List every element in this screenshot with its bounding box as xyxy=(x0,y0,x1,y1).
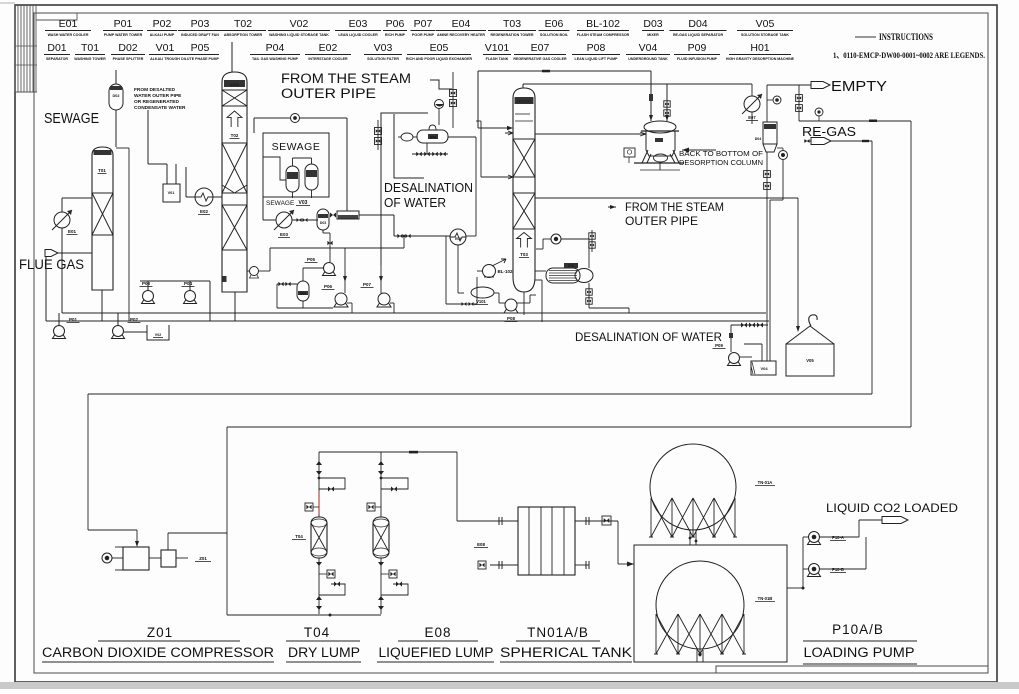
wire rich line valves xyxy=(445,236,447,304)
wire H01 outlet bottom xyxy=(659,162,661,170)
svg-text:SEWAGE: SEWAGE xyxy=(272,141,321,153)
wire sphere A outlet xyxy=(689,530,691,545)
valve manifold D04 drop xyxy=(766,166,768,196)
svg-text:CONDENSATE WATER: CONDENSATE WATER xyxy=(134,105,186,111)
svg-text:RE-GAS: RE-GAS xyxy=(802,125,856,139)
page edge tick top left xyxy=(0,2,15,4)
svg-text:P04: P04 xyxy=(184,281,193,286)
cooler E07 xyxy=(744,96,760,112)
svg-text:E01: E01 xyxy=(68,229,77,234)
wire D04 bottom xyxy=(766,152,768,166)
wire T02 bottom xyxy=(234,292,236,321)
svg-text:D03: D03 xyxy=(643,18,662,30)
valve manifold E06 up xyxy=(591,230,593,252)
svg-text:D04: D04 xyxy=(755,137,762,141)
wire T04 feed risers xyxy=(318,452,320,517)
wire P07 discharge xyxy=(390,302,394,304)
solenoid valve T04 left xyxy=(305,503,313,511)
wire T04 to E08 xyxy=(456,452,458,521)
svg-text:D01: D01 xyxy=(47,42,66,54)
svg-text:T04: T04 xyxy=(304,625,330,640)
separator D01 xyxy=(297,281,309,301)
svg-text:V101: V101 xyxy=(476,299,486,304)
svg-text:INTERSTAGE COOLER: INTERSTAGE COOLER xyxy=(308,57,348,61)
svg-text:FROM THE STEAM: FROM THE STEAM xyxy=(625,202,724,214)
gauge regas xyxy=(815,108,823,116)
svg-text:LEAN LIQUID LIFT PUMP: LEAN LIQUID LIFT PUMP xyxy=(575,57,619,61)
svg-text:T03: T03 xyxy=(520,252,528,257)
svg-text:V02: V02 xyxy=(155,333,161,337)
wire D03 down xyxy=(322,230,324,233)
svg-text:WATER OUTER PIPE: WATER OUTER PIPE xyxy=(134,93,182,99)
svg-text:REGENERATION TOWER: REGENERATION TOWER xyxy=(491,33,534,37)
mixer D03 xyxy=(317,209,329,230)
svg-text:OUTER PIPE: OUTER PIPE xyxy=(281,86,376,101)
svg-text:T02: T02 xyxy=(231,133,239,138)
svg-text:P04: P04 xyxy=(266,42,285,54)
column T03 packing upper xyxy=(513,139,535,177)
svg-text:TN-01B: TN-01B xyxy=(758,596,773,601)
text back to bottom xyxy=(682,149,716,151)
wire P09 discharge xyxy=(740,356,752,358)
valve T04 right top xyxy=(378,461,384,465)
svg-text:ALKALI TROUGH: ALKALI TROUGH xyxy=(150,57,180,61)
wire recycle header junction xyxy=(403,236,405,248)
svg-text:BL-102: BL-102 xyxy=(497,269,513,274)
heater E04 xyxy=(417,130,448,143)
page edge shadow bottom xyxy=(0,682,1019,689)
svg-text:FROM THE STEAM: FROM THE STEAM xyxy=(281,71,411,86)
wire E08 right upper xyxy=(575,520,618,522)
svg-text:SOLUTION BOIL: SOLUTION BOIL xyxy=(540,33,569,37)
fold marks block xyxy=(14,5,16,92)
wire pump suctions xyxy=(787,587,803,589)
column T02 packing lower xyxy=(222,205,247,250)
wire sewage top line xyxy=(254,117,290,119)
enclosure sphere B xyxy=(634,545,787,662)
wire blower connections xyxy=(536,248,543,250)
svg-text:E02: E02 xyxy=(200,209,209,214)
wire co2 product line A xyxy=(88,393,872,395)
wire regas right drop xyxy=(910,121,912,427)
pump circle D04 right xyxy=(779,151,788,160)
svg-text:P01: P01 xyxy=(114,18,133,30)
svg-text:OUTER PIPE: OUTER PIPE xyxy=(625,216,698,228)
vessel sewage filter B xyxy=(305,164,318,190)
svg-text:V03: V03 xyxy=(374,42,393,54)
svg-text:RICH PUMP: RICH PUMP xyxy=(385,33,406,37)
oval E04 left xyxy=(401,133,413,141)
wire E08 right lower xyxy=(575,564,589,566)
sphere tank TN-01A xyxy=(650,444,736,530)
svg-text:30000: 30000 xyxy=(230,83,240,87)
wire D02 bottom to T01 xyxy=(115,110,117,147)
svg-text:Z01: Z01 xyxy=(147,625,173,640)
wire E05 down xyxy=(457,245,459,293)
legend divider xyxy=(231,42,233,70)
cooler E03 xyxy=(276,212,292,228)
svg-text:P10-B: P10-B xyxy=(832,567,844,572)
svg-text:SEWAGE: SEWAGE xyxy=(44,110,99,127)
svg-text:E08: E08 xyxy=(477,542,485,547)
valve manifold E06 down xyxy=(588,283,590,308)
svg-text:DESALINATION OF WATER: DESALINATION OF WATER xyxy=(575,332,722,344)
wire E06 left xyxy=(535,270,546,272)
wire recycle header xyxy=(259,270,270,272)
vessel H01 desorption machine xyxy=(644,121,676,133)
svg-text:E04: E04 xyxy=(430,136,436,140)
wire T01 bottom xyxy=(101,290,103,321)
flag RE-GAS xyxy=(811,138,831,145)
column T01 washing tower xyxy=(92,147,113,290)
svg-text:PHASE SPLITTER: PHASE SPLITTER xyxy=(113,57,144,61)
cooler E01 xyxy=(54,212,70,228)
svg-text:EMPTY: EMPTY xyxy=(831,79,887,95)
svg-text:E06: E06 xyxy=(545,18,564,30)
svg-text:OR REGENERATED: OR REGENERATED xyxy=(134,99,179,105)
valve T04 left top xyxy=(316,461,322,465)
svg-text:D02: D02 xyxy=(113,94,120,98)
svg-text:SOLUTION STORAGE TANK: SOLUTION STORAGE TANK xyxy=(741,33,789,37)
svg-text:POOR PUMP: POOR PUMP xyxy=(412,33,435,37)
wire filter to E05 xyxy=(394,235,450,237)
svg-text:P10A/B: P10A/B xyxy=(832,622,884,637)
wire compressor to T04 xyxy=(319,451,457,453)
wire P05 suction xyxy=(303,267,323,269)
svg-text:RE-GAS LIQUID SEPARATOR: RE-GAS LIQUID SEPARATOR xyxy=(673,33,724,37)
compressor Z01 xyxy=(102,553,112,563)
wire T04 bottom bypass left xyxy=(319,584,345,595)
svg-text:ALKALI PUMP: ALKALI PUMP xyxy=(150,33,175,37)
solenoid valve T04 A bottom xyxy=(327,570,335,578)
solenoid valve T04 B bottom xyxy=(389,570,397,578)
column T03 regeneration tower xyxy=(513,88,535,292)
svg-text:P03: P03 xyxy=(142,281,151,286)
svg-text:FROM DESALTED: FROM DESALTED xyxy=(134,87,175,93)
wire P08 discharge xyxy=(517,302,530,304)
column T02 absorption tower xyxy=(222,72,247,292)
wire fill water line xyxy=(731,324,768,326)
svg-text:SPHERICAL TANK: SPHERICAL TANK xyxy=(500,645,632,660)
pump P10-B xyxy=(809,564,820,575)
svg-text:E05: E05 xyxy=(455,237,461,241)
valve T04 B drain xyxy=(378,596,384,600)
wire D01 bottom xyxy=(302,301,304,308)
svg-text:P08: P08 xyxy=(587,42,606,54)
wire P06 discharge xyxy=(347,302,352,304)
wire T04 bypass right xyxy=(381,478,408,489)
svg-text:SEWAGE: SEWAGE xyxy=(266,200,295,207)
svg-text:D03: D03 xyxy=(320,221,326,225)
wire P03 P04 drop xyxy=(209,281,211,321)
svg-text:LOADING PUMP: LOADING PUMP xyxy=(804,645,915,660)
wire E01 down xyxy=(61,228,63,313)
solenoid valve T04 right xyxy=(367,503,375,511)
column T03 feed arrows xyxy=(505,131,513,135)
wire BL-102 discharge xyxy=(492,259,506,266)
svg-text:E03: E03 xyxy=(280,232,289,237)
svg-text:T01: T01 xyxy=(98,168,106,173)
flag FLUE GAS xyxy=(45,250,58,257)
wire steam supply line xyxy=(535,197,798,199)
wire T04 bypass left xyxy=(319,478,345,489)
svg-text:T04: T04 xyxy=(295,534,303,539)
compressor BL-102 xyxy=(483,265,496,278)
svg-text:V04: V04 xyxy=(760,366,768,371)
svg-text:CARBON DIOXIDE COMPRESSOR: CARBON DIOXIDE COMPRESSOR xyxy=(42,645,274,660)
svg-text:P06: P06 xyxy=(324,284,333,289)
wire P05 riser xyxy=(329,248,331,262)
gauge above E04 xyxy=(435,100,444,109)
wire overhead steam line xyxy=(478,70,651,72)
wire sphere B outlet xyxy=(696,648,698,662)
svg-text:1、0110-EMCP-DW00-0001~0002 ARE: 1、0110-EMCP-DW00-0001~0002 ARE LEGENDS. xyxy=(833,50,985,60)
valve fill drop xyxy=(730,325,732,352)
wire E07 top xyxy=(751,84,753,96)
svg-text:OF WATER: OF WATER xyxy=(384,196,446,210)
wire P06 riser xyxy=(344,248,346,280)
svg-text:TN01A/B: TN01A/B xyxy=(527,625,589,640)
wire V01 risers xyxy=(166,164,168,184)
svg-text:P05: P05 xyxy=(307,257,316,262)
svg-text:WASHING TOWER: WASHING TOWER xyxy=(74,57,106,61)
flag EMPTY xyxy=(767,84,811,86)
blower on sewage box xyxy=(291,114,300,123)
filter V03 xyxy=(337,211,359,219)
svg-text:DCCCOX: DCCCOX xyxy=(517,100,532,104)
wire E04 drain valves xyxy=(426,143,428,154)
wire E03 to D03 xyxy=(292,219,318,221)
wire regas drop to line A xyxy=(871,141,873,394)
svg-text:FLUE GAS: FLUE GAS xyxy=(19,256,84,272)
wire E05 right xyxy=(466,235,476,237)
wire wash return drop xyxy=(116,147,129,149)
blower above E06 xyxy=(551,234,561,244)
svg-text:D04: D04 xyxy=(688,18,707,30)
wire P07 riser xyxy=(380,265,382,280)
wire E02 to T02 xyxy=(213,196,222,198)
svg-text:LEAN LIQUID COOLER: LEAN LIQUID COOLER xyxy=(338,33,378,37)
wire P04 riser xyxy=(189,281,191,290)
wire T03 bottoms xyxy=(523,292,525,315)
svg-text:WASHING LIQUID STORAGE TANK: WASHING LIQUID STORAGE TANK xyxy=(269,33,329,37)
svg-text:HIGH GRAVITY DESORPTION MACHIN: HIGH GRAVITY DESORPTION MACHINE xyxy=(726,57,795,61)
wire E04 right drop xyxy=(448,136,476,138)
enclosure sewage unit xyxy=(263,133,329,197)
column T03 liquid lines xyxy=(515,113,530,115)
svg-text:E01: E01 xyxy=(59,18,78,30)
wire regas upper xyxy=(798,113,800,121)
svg-text:TN-01A: TN-01A xyxy=(758,480,773,485)
wire P02 to V02 xyxy=(124,331,147,333)
svg-text:ABSORPTION TOWER: ABSORPTION TOWER xyxy=(224,33,263,37)
wire lean solution line xyxy=(62,312,766,314)
condenser E08 xyxy=(518,507,575,575)
flag LIQUID CO2 LOADED xyxy=(859,519,882,521)
wire E01 riser xyxy=(61,198,63,212)
wire V101 to P08 xyxy=(494,292,499,294)
column T02 packing mid xyxy=(222,143,247,193)
flash tank V101 xyxy=(471,287,494,298)
wire P01 riser xyxy=(58,313,60,325)
wire T01 top line xyxy=(62,197,92,199)
wire T02 dome riser xyxy=(231,42,233,72)
svg-text:P07: P07 xyxy=(414,18,433,30)
svg-text:V01: V01 xyxy=(168,191,175,195)
column T01 packing xyxy=(92,193,113,235)
column T02 vapor arrow xyxy=(227,111,242,127)
wire D04 drop pair xyxy=(766,196,768,361)
svg-text:E03: E03 xyxy=(349,18,368,30)
wire compressor feed xyxy=(88,529,137,531)
pump T02 bottoms xyxy=(247,270,250,272)
exchanger E05 xyxy=(450,229,466,245)
wire V03 vert xyxy=(393,215,395,236)
svg-text:V04: V04 xyxy=(639,42,658,54)
vessel sewage filter A xyxy=(286,166,299,192)
svg-text:P02: P02 xyxy=(153,18,172,30)
valve T04 A drain xyxy=(316,596,322,600)
tank V04 underground xyxy=(751,361,776,375)
svg-text:T02: T02 xyxy=(234,18,252,30)
wire pump discharges xyxy=(820,536,859,538)
svg-text:V05: V05 xyxy=(756,18,775,30)
svg-text:V05: V05 xyxy=(806,358,814,363)
wire E02 left xyxy=(186,196,195,198)
wire T03 left feeds xyxy=(481,176,513,178)
svg-text:E02: E02 xyxy=(319,42,338,54)
wire sewage to E03 xyxy=(262,197,264,220)
wire E08 to tank B xyxy=(617,521,619,564)
svg-text:V101: V101 xyxy=(485,42,510,54)
column T03 vapor arrow xyxy=(517,233,532,248)
svg-text:SEPARATOR: SEPARATOR xyxy=(46,57,68,61)
svg-text:V01: V01 xyxy=(156,42,175,54)
wire co2 line A drop left xyxy=(87,394,89,530)
svg-text:D02: D02 xyxy=(118,42,137,54)
wire H01 feed lines xyxy=(650,71,652,121)
svg-text:V02: V02 xyxy=(290,18,309,30)
svg-text:DRY LUMP: DRY LUMP xyxy=(288,645,360,660)
svg-text:E06: E06 xyxy=(568,264,574,268)
wire T04 red segment xyxy=(318,491,320,514)
svg-text:PUMP WATER TOWER: PUMP WATER TOWER xyxy=(104,33,143,37)
tank V01 alkali trough xyxy=(163,184,180,202)
svg-text:P10-A: P10-A xyxy=(832,535,844,540)
tank V05 storage xyxy=(786,344,834,376)
separator D04 xyxy=(763,122,777,144)
svg-text:P05: P05 xyxy=(191,42,210,54)
svg-text:P09: P09 xyxy=(688,42,707,54)
wire steam drop to V05 xyxy=(797,198,799,331)
svg-text:T03: T03 xyxy=(503,18,521,30)
svg-text:AMINE RECOVERY HEATER: AMINE RECOVERY HEATER xyxy=(437,33,485,37)
pump P10-A xyxy=(809,532,820,543)
svg-text:BL-102: BL-102 xyxy=(586,18,620,30)
text from the steam outer pipe lower xyxy=(608,206,616,208)
wire T03 overhead xyxy=(522,84,524,88)
instructions note xyxy=(855,36,876,38)
wire sewage filters piping xyxy=(263,157,286,180)
svg-text:DESORPTION COLUMN: DESORPTION COLUMN xyxy=(679,158,763,167)
svg-text:Z01: Z01 xyxy=(199,556,207,561)
wire D04 top to empty xyxy=(766,85,768,122)
tank V05 hook xyxy=(809,315,817,326)
svg-text:P09: P09 xyxy=(715,343,723,348)
svg-text:FLASH TANK: FLASH TANK xyxy=(486,57,509,61)
wire line B drop xyxy=(226,427,228,615)
svg-text:H01: H01 xyxy=(750,42,769,54)
svg-text:LIQUEFIED LUMP: LIQUEFIED LUMP xyxy=(379,645,494,660)
column T03 packing lower xyxy=(513,193,535,229)
wire wash water line xyxy=(46,320,769,322)
wire co2 product line B xyxy=(227,426,911,428)
vessel H01 base xyxy=(634,162,684,164)
wire P03 riser xyxy=(147,281,149,290)
svg-text:FLASH STEAM COMPRESSOR: FLASH STEAM COMPRESSOR xyxy=(577,33,630,37)
enclosure desalination piping xyxy=(381,113,428,265)
svg-text:TAIL GAS WASHING PUMP: TAIL GAS WASHING PUMP xyxy=(252,57,299,61)
svg-text:INDUCED DRAFT FAN: INDUCED DRAFT FAN xyxy=(181,33,219,37)
dryer column T04 A xyxy=(311,517,327,558)
wire H01 inlet left xyxy=(600,132,646,136)
sphere tank TN-01B xyxy=(656,561,744,649)
svg-text:DESALINATION: DESALINATION xyxy=(384,181,473,195)
wire T04 bottoms xyxy=(318,558,320,614)
column T02 bottom tick xyxy=(223,276,227,282)
wire E08 lower feed xyxy=(490,564,518,566)
valve manifold E04 right xyxy=(452,72,454,86)
vessel H01 legs xyxy=(642,150,648,163)
wire regas line xyxy=(831,140,872,142)
pump P08 xyxy=(505,299,517,311)
tank V02 sump xyxy=(147,325,169,340)
svg-text:UNDERGROUND TANK: UNDERGROUND TANK xyxy=(628,57,668,61)
wire regeneration return xyxy=(227,614,381,616)
svg-text:INSTRUCTIONS: INSTRUCTIONS xyxy=(879,33,933,43)
vessel H01 side box xyxy=(624,148,635,157)
wire D02 top xyxy=(115,70,117,84)
svg-text:T01: T01 xyxy=(81,42,99,54)
svg-text:REGENERATIVE GAS COOLER: REGENERATIVE GAS COOLER xyxy=(513,57,567,61)
dryer column T04 B xyxy=(373,517,389,558)
wire V03 right xyxy=(359,214,394,216)
reboiler E06 xyxy=(546,268,580,283)
wire V04 recirculation xyxy=(744,343,762,345)
svg-text:WASH WATER COOLER: WASH WATER COOLER xyxy=(48,33,89,37)
svg-text:P03: P03 xyxy=(191,18,210,30)
exchanger E02 xyxy=(195,188,213,206)
wire steam note dash xyxy=(430,80,452,89)
svg-text:LIQUID CO2 LOADED: LIQUID CO2 LOADED xyxy=(826,503,958,515)
svg-text:MIXER: MIXER xyxy=(647,33,659,37)
svg-text:P06: P06 xyxy=(386,18,405,30)
svg-text:D01: D01 xyxy=(300,292,306,296)
gauge on empty line xyxy=(773,96,781,104)
svg-text:DILUTE PHASE PUMP: DILUTE PHASE PUMP xyxy=(181,57,219,61)
svg-text:E08: E08 xyxy=(424,625,451,640)
svg-text:BACK TO BOTTOM OF: BACK TO BOTTOM OF xyxy=(679,149,764,158)
corner reference box xyxy=(36,13,77,20)
vessel D02 xyxy=(109,84,123,110)
wire T04 bottom bypass right xyxy=(381,584,408,595)
svg-text:RICH AND POOR LIQUID EXCHANGER: RICH AND POOR LIQUID EXCHANGER xyxy=(406,57,473,61)
column T02 packing upper xyxy=(222,90,247,106)
title strip line bottom right xyxy=(716,666,988,673)
svg-text:E05: E05 xyxy=(430,42,449,54)
wire overhead drop to T03 feed xyxy=(477,71,479,128)
valve manifold V03 stack xyxy=(377,120,379,150)
